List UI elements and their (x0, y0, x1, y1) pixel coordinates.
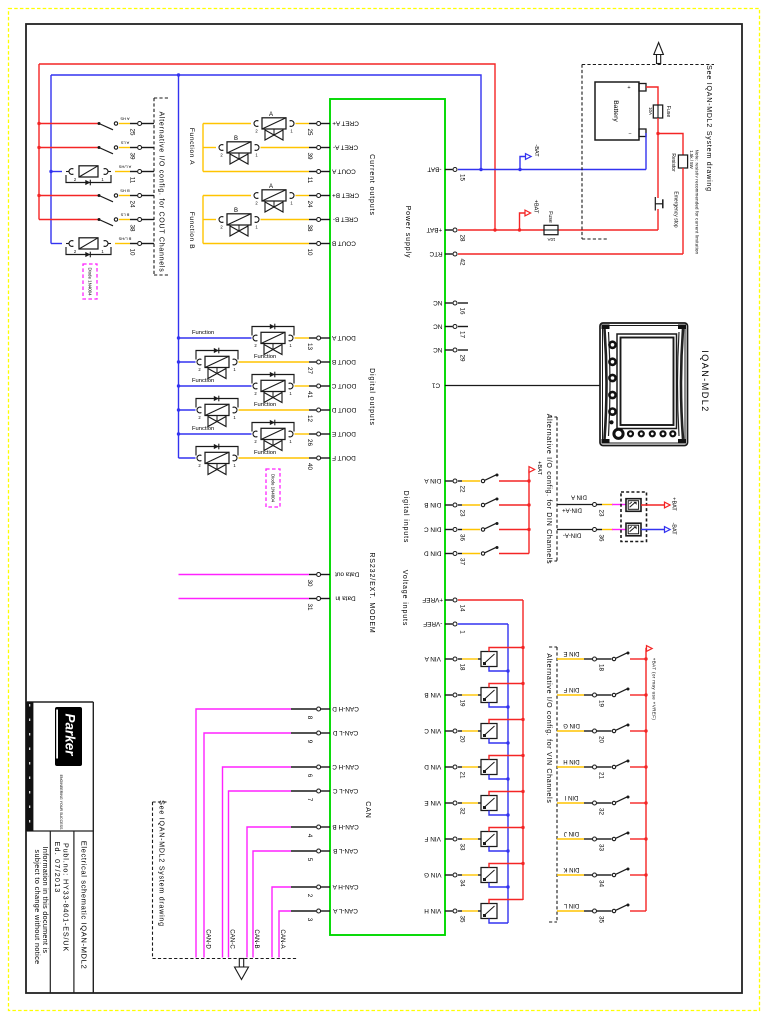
wire sensor to +BAT (red) (641, 504, 665, 506)
svg-text:11: 11 (306, 177, 313, 184)
switch DIN F (612, 693, 615, 696)
alt wire DIN G (yellow) (557, 730, 584, 732)
fuse on +BAT wire (544, 225, 558, 234)
svg-text:2: 2 (255, 129, 258, 134)
relay coil for COUT pin 11 (51, 171, 62, 173)
svg-text:42: 42 (458, 258, 465, 266)
svg-text:Alternative I/O config. for VI: Alternative I/O config. for VIN Channels (545, 653, 552, 803)
wire DIN C to +BAT bus (red) (499, 529, 529, 531)
svg-text:RTC: RTC (429, 250, 442, 257)
+BAT arrow (525, 210, 531, 216)
svg-text:11: 11 (128, 177, 135, 184)
svg-text:12: 12 (306, 415, 313, 423)
alt wire DIN F (yellow) (557, 694, 584, 696)
wire VIN E sensor to red bus (489, 792, 523, 796)
svg-text:17: 17 (458, 331, 465, 339)
sensor VIN F (481, 832, 497, 847)
wire DIN A (yellow) (458, 480, 462, 482)
svg-text:13: 13 (306, 343, 313, 351)
wire CRET A+ (yellow) (203, 123, 251, 125)
svg-text:CAN-H A: CAN-H A (332, 883, 359, 890)
emergency stop switch (655, 197, 663, 211)
svg-text:Note: resistiv recommended for: Note: resistiv recommended for current l… (695, 150, 700, 255)
fuse at battery (653, 105, 662, 118)
svg-text:Parker: Parker (63, 713, 78, 756)
svg-text:20: 20 (458, 735, 465, 743)
svg-text:19: 19 (597, 700, 604, 708)
svg-text:30: 30 (306, 579, 313, 587)
svg-text:2: 2 (220, 153, 223, 158)
svg-text:DIN I: DIN I (564, 794, 578, 800)
wire CAN-H C (magenta) (223, 767, 292, 958)
svg-text:VIN A: VIN A (424, 655, 441, 662)
svg-text:A: A (269, 184, 273, 190)
svg-text:35: 35 (458, 915, 465, 923)
svg-text:25: 25 (306, 128, 313, 136)
svg-text:39: 39 (306, 152, 313, 160)
svg-text:29: 29 (458, 354, 465, 362)
wire VIN F sensor to blue bus (489, 847, 508, 852)
alt wire DIN K (yellow) (557, 874, 584, 876)
svg-text:Diode 1N4004: Diode 1N4004 (88, 267, 93, 296)
svg-text:DIN L: DIN L (563, 902, 579, 908)
pin 34 (VIN G) (424, 871, 465, 887)
alt pin 36 (563, 528, 604, 542)
svg-text:34: 34 (458, 879, 465, 887)
switch DIN E (612, 657, 615, 660)
svg-text:1: 1 (233, 367, 236, 372)
wire DIN K to +BAT bus (red) (630, 874, 646, 876)
svg-text:DOUT E: DOUT E (332, 430, 356, 437)
switch DIN H (612, 765, 615, 768)
sensor switch 1 (626, 499, 641, 512)
wire CAN-L C (magenta) (229, 791, 292, 958)
svg-text:DIN F: DIN F (563, 686, 579, 692)
alt pin 11 (118, 165, 154, 184)
wire sensor to -BAT (blue) (641, 529, 665, 531)
pin 39 (CRET A-) (306, 143, 358, 160)
svg-text:A LS: A LS (120, 141, 129, 146)
svg-text:41: 41 (306, 391, 313, 399)
svg-text:See IQAN-MDL2 System drawing: See IQAN-MDL2 System drawing (705, 65, 712, 192)
pin 6 (CAN-H C) (306, 763, 359, 778)
svg-text:14: 14 (458, 604, 465, 612)
svg-text:RS232/EXT. MODEM: RS232/EXT. MODEM (368, 552, 375, 633)
svg-text:A HS: A HS (120, 117, 129, 122)
svg-text:20: 20 (597, 736, 604, 744)
svg-text:2: 2 (198, 367, 201, 372)
pin 42 (RTC) (429, 250, 465, 266)
svg-text:See IQAN-MDL2 System drawing: See IQAN-MDL2 System drawing (158, 800, 165, 927)
wire VIN H sensor to blue bus (489, 919, 508, 924)
sensor block (dashed) (621, 492, 647, 542)
svg-text:DOUT F: DOUT F (332, 454, 356, 461)
dashed bracket: Alternative VIN config (549, 647, 557, 922)
svg-text:2: 2 (306, 894, 313, 898)
svg-text:21: 21 (458, 771, 465, 779)
svg-text:IQAN-MDL2: IQAN-MDL2 (700, 350, 710, 413)
wire Data in (magenta) (179, 598, 310, 600)
wire VIN A (yellow) (458, 658, 462, 660)
IQAN-MDL2 module body (green) (330, 99, 445, 935)
wire COUT A (yellow) (203, 171, 309, 173)
svg-text:-BAT: -BAT (427, 165, 441, 172)
svg-text:Emergency stop: Emergency stop (672, 191, 678, 227)
wire DIN D to +BAT bus (red) (499, 553, 529, 555)
svg-text:1: 1 (290, 129, 293, 134)
svg-text:Function: Function (254, 450, 276, 456)
wire VIN D sensor to red bus (489, 756, 523, 760)
svg-text:Function A: Function A (188, 128, 195, 165)
Function B yellow bus (202, 196, 204, 244)
wire +VREF (red) (458, 599, 523, 601)
wire DOUT F (blue) (179, 457, 196, 459)
pin 22 (DIN A) (424, 477, 466, 493)
svg-text:CAN-L D: CAN-L D (333, 729, 359, 736)
switch DIN A (481, 479, 484, 482)
wire DOUT D (blue) (179, 409, 196, 411)
wire DOUT F (yellow) (239, 457, 310, 459)
svg-text:CAN-D: CAN-D (204, 929, 211, 949)
svg-text:23: 23 (597, 509, 604, 517)
svg-text:CRET B+: CRET B+ (332, 191, 359, 198)
alt wire DIN I (yellow) (557, 802, 584, 804)
svg-text:COUT A: COUT A (331, 167, 355, 174)
wire battery + to fuse (red) (646, 87, 658, 105)
svg-text:DIN B: DIN B (424, 501, 441, 508)
sensor VIN E (481, 796, 497, 811)
pin 20 (VIN C) (424, 727, 465, 743)
svg-text:Function: Function (254, 354, 276, 360)
svg-text:DOUT B: DOUT B (332, 358, 356, 365)
blue bus for digital outputs (178, 75, 180, 458)
svg-text:DOUT A: DOUT A (331, 334, 355, 341)
svg-text:CRET A-: CRET A- (333, 143, 358, 150)
diode note box (COUT relays) (83, 264, 97, 299)
svg-text:26: 26 (306, 439, 313, 447)
blue VREF bus (507, 624, 509, 923)
svg-text:VIN H: VIN H (424, 907, 441, 914)
wire VIN H sensor to red bus (489, 900, 523, 904)
red VREF bus (522, 600, 524, 900)
-BAT arrow stub (520, 157, 526, 170)
-BAT arrow (526, 154, 532, 160)
wire DIN J to +BAT bus (red) (630, 838, 646, 840)
+BAT arrow (DIN bus) (529, 467, 535, 473)
svg-text:+BAT: +BAT (671, 497, 677, 511)
svg-text:-BAT: -BAT (671, 522, 677, 535)
svg-text:NC: NC (433, 322, 443, 329)
pin 24 (CRET B+) (306, 191, 359, 208)
svg-text:24: 24 (306, 200, 313, 208)
switch DIN C (481, 528, 484, 531)
wire DOUT B (blue) (179, 361, 196, 363)
diode note box (DOUT) (266, 469, 280, 507)
pin 11 (COUT A) (306, 167, 356, 183)
svg-text:8: 8 (306, 716, 313, 720)
svg-text:40: 40 (306, 463, 313, 471)
dashed bracket: Alternative COUT config (154, 98, 168, 275)
relay coil for COUT pin 10 (51, 243, 62, 245)
alt pin 34 (593, 873, 605, 887)
svg-text:1: 1 (458, 630, 465, 634)
+BAT red bus (left) (38, 64, 40, 220)
pin 29 (NC) (433, 346, 466, 362)
sensor switch 2 (626, 523, 641, 536)
wire VIN A sensor to blue bus (489, 667, 508, 672)
alt pin 10 (118, 237, 154, 256)
svg-text:1: 1 (255, 225, 258, 230)
pin 33 (VIN F) (424, 835, 465, 851)
svg-text:1: 1 (233, 415, 236, 420)
svg-text:CAN-H B: CAN-H B (332, 823, 358, 830)
svg-text:Function: Function (192, 426, 214, 432)
-BAT blue bus (left) (50, 75, 52, 244)
wire DOUT C (yellow) (295, 385, 310, 387)
svg-text:+VREF: +VREF (422, 596, 443, 603)
wire DOUT C (blue) (179, 385, 252, 387)
svg-text:9: 9 (306, 740, 313, 744)
solenoid valve B (Function A) (219, 136, 259, 164)
sensor VIN G (481, 868, 497, 883)
svg-text:DIN-A+: DIN-A+ (562, 506, 582, 512)
pin 2 (CAN-H A) (306, 883, 359, 898)
pin 13 (DOUT A) (306, 334, 356, 351)
dashed box: See IQAN-MDL2 System drawing (battery) (582, 65, 714, 240)
pin 35 (VIN H) (424, 907, 465, 923)
svg-text:Digital inputs: Digital inputs (402, 491, 409, 544)
solenoid valve A (Function A) (254, 112, 294, 140)
pin 38 (CRET B-) (306, 215, 358, 232)
svg-text:Fuse: Fuse (547, 211, 553, 223)
solenoid valve DOUT D with flyback diode (196, 396, 276, 427)
svg-text:CRET A+: CRET A+ (332, 119, 359, 126)
svg-text:33: 33 (597, 844, 604, 852)
wire DIN E to +BAT bus (red) (630, 658, 646, 660)
svg-text:2: 2 (254, 343, 257, 348)
svg-text:CAN-L A: CAN-L A (333, 907, 358, 914)
svg-text:Battery: Battery (612, 100, 619, 122)
svg-text:CAN-L C: CAN-L C (333, 787, 359, 794)
solenoid valve DOUT F with flyback diode (196, 444, 276, 475)
alt wire DIN E (yellow) (557, 658, 584, 660)
pin 5 (CAN-L B) (306, 847, 358, 862)
svg-text:CAN: CAN (364, 801, 371, 818)
svg-text:22: 22 (458, 485, 465, 493)
alt pin 35 (593, 909, 605, 923)
svg-text:28: 28 (458, 234, 465, 242)
sensor VIN H (481, 904, 497, 919)
wire VIN C (yellow) (458, 730, 462, 732)
alt pin 18 (593, 657, 605, 671)
alt pin 25 (120, 117, 154, 136)
svg-text:2: 2 (198, 415, 201, 420)
svg-text:2: 2 (255, 201, 258, 206)
svg-text:18: 18 (458, 663, 465, 671)
svg-text:CAN-B: CAN-B (253, 929, 260, 948)
svg-text:CAN-C: CAN-C (228, 929, 235, 949)
wire VIN E (yellow) (458, 802, 462, 804)
wire VIN B sensor to blue bus (489, 703, 508, 708)
solenoid valve DOUT B with flyback diode (196, 348, 276, 379)
alt pin 33 (593, 837, 605, 851)
svg-text:-VREF: -VREF (423, 620, 442, 627)
svg-text:Resistor: Resistor (670, 153, 676, 172)
svg-text:Function: Function (192, 378, 214, 384)
svg-text:Ed. 07/2013: Ed. 07/2013 (53, 842, 62, 894)
pin 26 (DOUT E) (306, 430, 356, 447)
svg-text:Alternative I/O config. for DI: Alternative I/O config. for DIN Channels (545, 414, 552, 565)
pin 3 (CAN-L A) (306, 907, 358, 922)
svg-text:Function B: Function B (188, 212, 195, 250)
solenoid valve DOUT E with flyback diode (192, 420, 294, 451)
switch for COUT pin 24 (37, 194, 117, 202)
wire DOUT A (blue) (179, 337, 252, 339)
svg-text:CAN-A: CAN-A (279, 929, 286, 949)
switch DIN G (612, 729, 615, 732)
svg-text:34: 34 (597, 880, 604, 888)
switch DIN L (612, 909, 615, 912)
black edge strip (26, 702, 33, 831)
wire VIN C sensor to blue bus (489, 739, 508, 744)
alt DIN-A+ wire (557, 504, 592, 506)
pin 1 (-VREF) (423, 620, 465, 634)
wire resistor to RTC (red) (682, 168, 684, 254)
title block outline (26, 702, 93, 993)
svg-text:DIN G: DIN G (563, 722, 580, 728)
svg-text:1: 1 (101, 249, 104, 254)
svg-text:Electrical schematic IQAN-MDL2: Electrical schematic IQAN-MDL2 (79, 841, 88, 970)
svg-text:DIN A: DIN A (424, 477, 441, 484)
switch DIN K (612, 873, 615, 876)
svg-text:CAN-H D: CAN-H D (332, 705, 359, 712)
svg-text:32: 32 (597, 808, 604, 816)
svg-text:31: 31 (306, 603, 313, 611)
svg-text:B LS: B LS (120, 213, 129, 218)
svg-text:A: A (269, 112, 273, 118)
wire DIN C (yellow) (458, 529, 462, 531)
svg-text:Power supply: Power supply (404, 206, 411, 259)
alt pin 32 (593, 801, 605, 815)
wire DOUT E (blue) (179, 433, 252, 435)
alt pin 23 (562, 503, 605, 517)
pin 8 (CAN-H D) (306, 705, 359, 720)
svg-text:COUT B: COUT B (332, 239, 356, 246)
alt pin 24 (120, 189, 154, 208)
wire CAN-H D (magenta) (196, 709, 291, 958)
pin 17 (NC) (433, 322, 466, 338)
svg-text:A L/HS: A L/HS (118, 165, 131, 170)
pin 37 (DIN D) (424, 549, 466, 565)
svg-text:Alternative I/O config. for CO: Alternative I/O config. for COUT Channel… (158, 112, 165, 273)
wire CAN-L B (magenta) (253, 851, 291, 958)
wire fuse to junction (red) (657, 118, 659, 134)
wire junction to resistor branch (red) (658, 134, 683, 155)
svg-text:DIN K: DIN K (563, 866, 579, 872)
svg-text:DIN A: DIN A (571, 493, 587, 499)
svg-text:Data in: Data in (335, 594, 356, 601)
svg-text:4: 4 (306, 834, 313, 838)
solenoid valve DOUT A with flyback diode (192, 324, 294, 355)
svg-text:+: + (627, 85, 630, 91)
wire VIN A sensor to red bus (489, 648, 523, 652)
pin 15 (-BAT) (427, 165, 465, 181)
wire DIN I to +BAT bus (red) (630, 802, 646, 804)
svg-text:DIN J: DIN J (564, 830, 579, 836)
pin 4 (CAN-H B) (306, 823, 359, 838)
battery (595, 82, 646, 140)
solenoid valve DOUT C with flyback diode (192, 372, 294, 403)
wire battery - (blue) (645, 133, 647, 170)
svg-text:CAN-L B: CAN-L B (333, 847, 358, 854)
wire VIN B (yellow) (458, 694, 462, 696)
wire DIN H to +BAT bus (red) (630, 766, 646, 768)
svg-text:3: 3 (306, 918, 313, 922)
red feed wire to power supply (39, 64, 495, 230)
pin 21 (VIN D) (424, 763, 465, 779)
svg-text:DIN D: DIN D (424, 549, 442, 556)
svg-text:2: 2 (254, 439, 257, 444)
alt pin 19 (593, 693, 605, 707)
pin 40 (DOUT F) (306, 454, 356, 471)
svg-text:Diode 1N4004: Diode 1N4004 (271, 474, 276, 503)
wire DIN A to +BAT bus (red) (499, 480, 529, 482)
svg-text:Digital outputs: Digital outputs (368, 368, 375, 426)
svg-text:2: 2 (74, 249, 77, 254)
-BAT arrow (sensor) (665, 527, 671, 533)
svg-text:Current outputs: Current outputs (368, 154, 375, 216)
svg-text:32: 32 (458, 807, 465, 815)
svg-text:DIN-A-: DIN-A- (563, 531, 581, 537)
wire C1 to display (445, 385, 600, 387)
sensor VIN D (481, 760, 497, 775)
svg-text:2: 2 (74, 177, 77, 182)
switch for COUT pin 39 (37, 146, 117, 154)
wire emergency stop to +BAT row (red) (657, 209, 659, 230)
svg-text:DOUT D: DOUT D (331, 406, 356, 413)
wire DIN B to +BAT bus (red) (499, 504, 529, 506)
svg-text:10: 10 (128, 248, 135, 256)
svg-text:25: 25 (128, 128, 135, 136)
wire CAN-L A (magenta) (279, 911, 291, 958)
pin 12 (DOUT D) (306, 406, 356, 423)
dashed bracket: Alternative DIN config (549, 417, 557, 561)
svg-text:27: 27 (306, 367, 313, 375)
svg-text:6: 6 (306, 774, 313, 778)
switch DIN J (612, 837, 615, 840)
svg-text:B HS: B HS (120, 189, 130, 194)
wire junction to emergency stop (red) (657, 134, 659, 199)
alt pin 39 (120, 141, 154, 160)
pin 32 (VIN E) (424, 799, 465, 815)
svg-text:CRET B-: CRET B- (333, 215, 358, 222)
switch DIN I (612, 801, 615, 804)
svg-text:B: B (234, 208, 238, 214)
svg-text:+BAT: +BAT (536, 461, 542, 475)
svg-text:Fuse: Fuse (665, 106, 671, 118)
pin 31 (Data in) (306, 594, 356, 611)
wire VIN G sensor to blue bus (489, 883, 508, 888)
svg-text:NC: NC (433, 299, 443, 306)
alt pin 38 (120, 213, 154, 232)
solenoid valve A (Function B) (254, 184, 294, 212)
svg-text:DIN C: DIN C (424, 525, 442, 532)
pin 36 (DIN C) (424, 525, 466, 541)
wire VIN D sensor to blue bus (489, 775, 508, 780)
svg-text:1: 1 (101, 177, 104, 182)
wire DIN F to +BAT bus (red) (630, 694, 646, 696)
Parker logo (55, 707, 82, 766)
